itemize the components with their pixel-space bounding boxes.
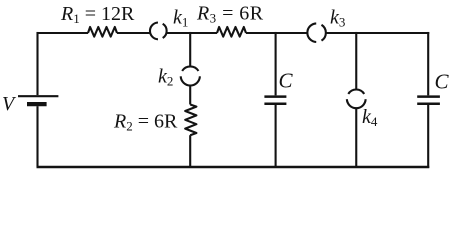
svg-text:k1: k1 bbox=[173, 7, 188, 30]
wire right side upper bbox=[427, 32, 429, 95]
svg-text:C: C bbox=[279, 69, 294, 93]
svg-text:k2: k2 bbox=[158, 66, 173, 89]
wire left side lower bbox=[36, 106, 38, 167]
wire cap1 branch lower bbox=[275, 105, 277, 167]
wire k2 to R2 bbox=[189, 86, 191, 105]
svg-text:R3 = 6R: R3 = 6R bbox=[196, 3, 264, 26]
battery V long plate bbox=[18, 95, 58, 97]
switch k2 bbox=[181, 66, 200, 85]
svg-text:C: C bbox=[435, 70, 450, 94]
svg-text:k3: k3 bbox=[330, 7, 345, 30]
capacitor C right top plate bbox=[417, 95, 440, 98]
resistor R3 bbox=[217, 27, 246, 37]
resistor R1 bbox=[88, 27, 117, 37]
wire right side lower bbox=[427, 105, 429, 168]
wire k3 to top-right corner bbox=[326, 32, 429, 34]
wire k4 branch upper bbox=[355, 32, 357, 90]
resistor R2 bbox=[185, 105, 196, 136]
wire top-left segment bbox=[37, 32, 89, 34]
wire R1 to k1 bbox=[117, 32, 150, 34]
wire R2 to bottom bbox=[189, 135, 191, 167]
svg-text:R1 = 12R: R1 = 12R bbox=[60, 3, 135, 26]
wire left side upper bbox=[36, 32, 38, 95]
wire bottom bbox=[37, 166, 430, 169]
switch k3 bbox=[307, 23, 325, 42]
svg-text:R2 = 6R: R2 = 6R bbox=[113, 111, 178, 134]
svg-text:k4: k4 bbox=[362, 106, 378, 129]
capacitor C middle top plate bbox=[264, 95, 286, 98]
wire k4 branch lower bbox=[355, 108, 357, 167]
wire node down to k2 bbox=[189, 32, 191, 67]
wire k1 to R3 through node k1-branch bbox=[166, 32, 217, 34]
wire cap1 branch upper bbox=[275, 32, 277, 95]
capacitor C middle bottom plate bbox=[264, 102, 286, 105]
battery V short plate bbox=[27, 102, 47, 106]
wire R3 to k3 through cap node bbox=[246, 32, 307, 34]
switch k1 bbox=[150, 23, 167, 40]
switch k4 bbox=[347, 90, 366, 109]
svg-text:V: V bbox=[2, 93, 17, 115]
capacitor C right bottom plate bbox=[417, 102, 440, 105]
